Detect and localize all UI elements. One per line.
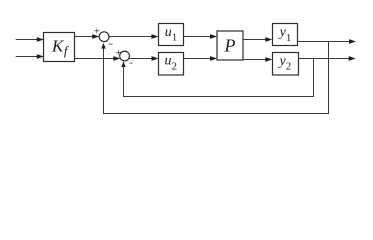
svg-text:+: +: [115, 47, 122, 59]
svg-text:P: P: [224, 36, 236, 56]
svg-text:+: +: [93, 25, 100, 37]
